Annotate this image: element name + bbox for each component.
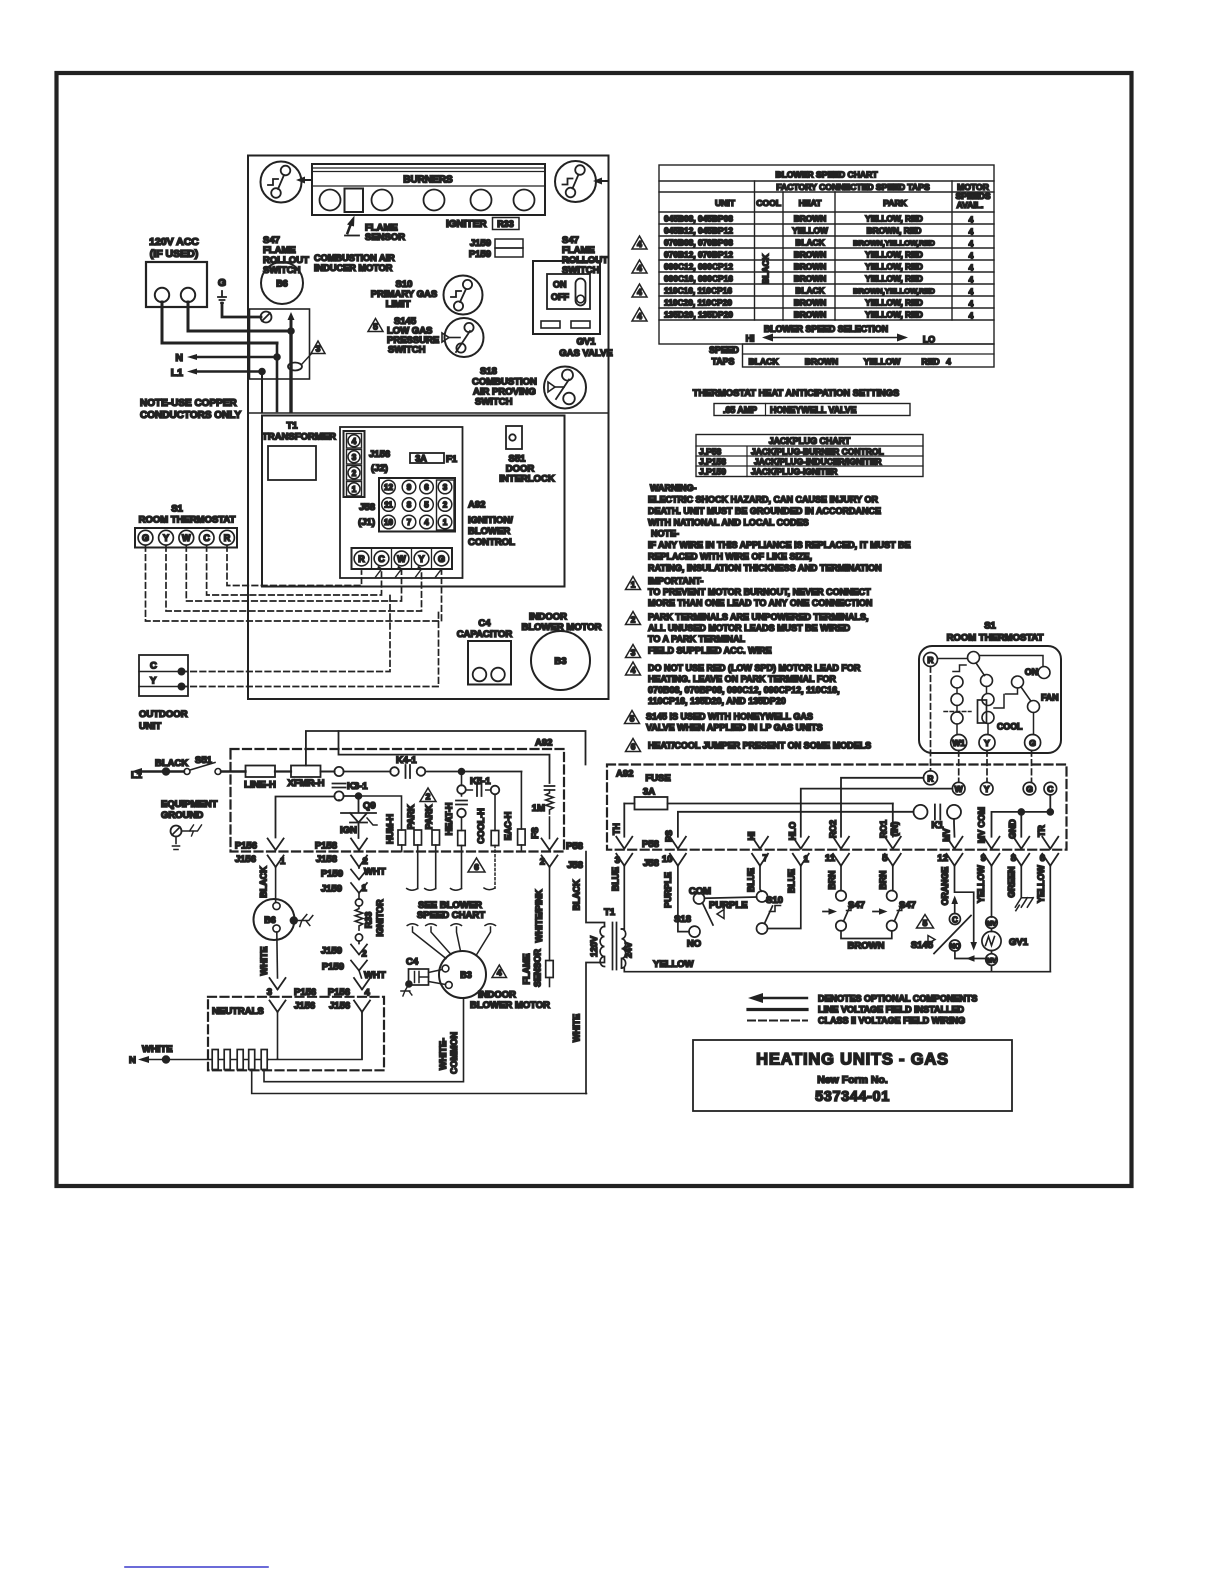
flame rollout switch S47 left — [261, 162, 312, 277]
svg-text:B6: B6 — [276, 279, 288, 289]
connector J58 (J1) pin block — [358, 478, 455, 532]
svg-text:4: 4 — [497, 968, 502, 978]
svg-text:BURNERS: BURNERS — [403, 175, 453, 186]
wire HI to S10 — [760, 866, 762, 892]
compartment divider — [248, 412, 609, 414]
svg-text:120V: 120V — [589, 936, 599, 957]
svg-text:JACKPLUG CHART: JACKPLUG CHART — [769, 436, 851, 446]
svg-text:(J2): (J2) — [371, 463, 388, 474]
svg-text:R: R — [358, 554, 365, 564]
svg-text:S18: S18 — [480, 366, 497, 377]
svg-text:W: W — [397, 554, 406, 564]
svg-text:YELLOW, RED: YELLOW, RED — [865, 262, 923, 272]
svg-text:COOL-H: COOL-H — [476, 808, 486, 844]
control fuse 3A — [624, 773, 893, 810]
svg-text:WHT: WHT — [364, 970, 386, 981]
svg-text:IMPORTANT-: IMPORTANT- — [648, 576, 703, 586]
svg-text:SPEED CHART: SPEED CHART — [417, 910, 485, 921]
svg-text:4: 4 — [631, 665, 636, 675]
svg-text:SWITCH: SWITCH — [388, 345, 426, 356]
connector P156/J156 pin 4 — [328, 978, 371, 1059]
svg-text:C: C — [203, 533, 210, 543]
legend class II — [748, 1016, 965, 1026]
svg-text:K4-1: K4-1 — [396, 755, 417, 766]
ignition control board outline — [340, 427, 463, 578]
svg-text:DENOTES OPTIONAL COMPONENTS: DENOTES OPTIONAL COMPONENTS — [818, 994, 977, 1004]
door interlock S51 — [499, 426, 555, 485]
svg-text:4: 4 — [969, 251, 974, 261]
svg-text:DEATH. UNIT MUST BE GROUNDED I: DEATH. UNIT MUST BE GROUNDED IN ACCORDAN… — [648, 506, 881, 516]
wire TR yellow — [1049, 866, 1051, 972]
terminal W1 — [951, 735, 967, 751]
svg-text:S47: S47 — [899, 900, 916, 911]
svg-text:MORE THAN ONE LEAD TO ANY ONE: MORE THAN ONE LEAD TO ANY ONE CONNECTION — [648, 598, 872, 608]
connector P159/J159 pin 1 — [321, 867, 386, 895]
control compartment box — [262, 416, 565, 587]
svg-text:4: 4 — [969, 275, 974, 285]
svg-text:BROWN: BROWN — [794, 262, 827, 272]
wire K1 to MV — [953, 819, 956, 837]
svg-text:C4: C4 — [478, 618, 491, 629]
svg-text:TR: TR — [1037, 824, 1047, 836]
connector J156 (J2) — [344, 431, 391, 497]
svg-text:SENSOR: SENSOR — [533, 948, 543, 987]
capacitor C4 — [457, 618, 513, 685]
svg-text:RO1: RO1 — [879, 820, 889, 838]
svg-text:BLACK: BLACK — [259, 866, 269, 898]
svg-text:1: 1 — [804, 854, 810, 865]
connector J159 P159 — [469, 238, 523, 260]
note triangle 5 — [368, 319, 383, 332]
flame sensor dropping resistor 1M — [530, 786, 555, 839]
svg-text:J158: J158 — [316, 854, 337, 865]
ignition blower control A92 label — [468, 500, 515, 549]
svg-text:L1: L1 — [171, 367, 183, 379]
svg-text:WHITE: WHITE — [259, 947, 269, 976]
svg-text:3: 3 — [443, 483, 448, 492]
svg-text:HEAT-H: HEAT-H — [444, 803, 454, 836]
svg-text:3A: 3A — [415, 454, 427, 464]
wire RO1 — [892, 804, 894, 837]
terminal strip R C W Y G — [352, 548, 453, 569]
svg-text:P159: P159 — [469, 249, 491, 260]
svg-text:N: N — [175, 352, 183, 364]
svg-text:INDOOR: INDOOR — [529, 612, 567, 623]
heat switch — [938, 652, 993, 687]
rollout switch S47 a — [823, 891, 865, 931]
terminal TR pin 6 — [1042, 837, 1058, 866]
pressure switch S18 — [674, 886, 747, 950]
wire W thermostat to strip — [186, 546, 401, 602]
svg-text:5: 5 — [923, 918, 928, 928]
legend optional arrow — [748, 993, 977, 1004]
svg-text:UNIT: UNIT — [139, 721, 161, 732]
svg-text:FIELD SUPPLIED ACC. WIRE: FIELD SUPPLIED ACC. WIRE — [648, 646, 772, 656]
svg-text:4: 4 — [637, 239, 642, 249]
svg-text:R33: R33 — [364, 912, 374, 929]
burner assembly — [312, 164, 545, 215]
wire GND to chassis — [1020, 866, 1022, 898]
svg-text:C: C — [1047, 784, 1053, 794]
svg-text:WITH NATIONAL AND LOCAL CODES: WITH NATIONAL AND LOCAL CODES — [648, 518, 809, 528]
note triangle 2 — [420, 788, 436, 802]
wire outdoor C — [182, 595, 391, 672]
svg-text:7: 7 — [407, 518, 412, 527]
svg-text:C: C — [952, 915, 958, 924]
svg-text:.65 AMP: .65 AMP — [723, 405, 757, 415]
svg-text:4: 4 — [969, 227, 974, 237]
svg-text:BROWN: BROWN — [794, 298, 827, 308]
wire G to screw — [222, 303, 261, 317]
svg-text:GAS VALVE: GAS VALVE — [559, 348, 613, 359]
mercury bulb — [978, 687, 1005, 735]
wire W to HLO — [801, 789, 953, 837]
svg-text:B3: B3 — [460, 970, 472, 980]
svg-text:2: 2 — [426, 792, 431, 802]
svg-text:S145: S145 — [911, 940, 934, 951]
svg-text:XFMR-H: XFMR-H — [288, 778, 325, 789]
inducer motor B6 — [261, 262, 303, 304]
wire MV orange with optional arrows — [951, 866, 986, 962]
svg-text:045B08, 045BP08: 045B08, 045BP08 — [664, 214, 733, 224]
connector J159/P159 pin 2 — [321, 941, 386, 981]
park lead 1 — [406, 804, 422, 888]
svg-text:6: 6 — [474, 862, 479, 872]
svg-text:P158: P158 — [315, 841, 337, 852]
combustion air proving switch S18 label — [472, 366, 537, 408]
accessory EAC-H — [503, 772, 525, 852]
note 5 — [625, 711, 823, 733]
svg-text:5: 5 — [373, 322, 378, 332]
connector P156/J156 pin 3 — [267, 978, 316, 1059]
svg-text:TO A PARK TERMINAL: TO A PARK TERMINAL — [648, 634, 745, 644]
svg-text:LIMIT: LIMIT — [386, 299, 411, 310]
wire 120V neutral — [162, 302, 277, 343]
riser to FS branch — [339, 731, 550, 783]
svg-text:11: 11 — [825, 853, 836, 864]
relay coil K1 — [914, 805, 962, 832]
svg-text:090C16, 090CP16: 090C16, 090CP16 — [664, 274, 733, 284]
low gas pressure switch S145 label — [387, 316, 439, 356]
relay contact K4-1 — [390, 755, 461, 778]
brown link wire — [841, 931, 892, 939]
svg-text:BROWN: BROWN — [848, 941, 885, 952]
jackplug chart — [696, 435, 923, 477]
node L1 — [171, 367, 265, 379]
svg-text:F1: F1 — [446, 454, 458, 465]
thermostat heat anticipation settings — [693, 388, 910, 416]
svg-text:J.P58: J.P58 — [699, 447, 721, 457]
furnace unit outline — [248, 156, 609, 700]
svg-text:3: 3 — [631, 648, 636, 658]
svg-text:YELLOW: YELLOW — [1036, 864, 1046, 902]
gas pressure switch S145 — [911, 914, 971, 954]
svg-text:BROWN: BROWN — [794, 214, 827, 224]
svg-text:S10: S10 — [766, 895, 783, 906]
terminal TH pin 3 — [616, 837, 632, 866]
svg-text:INDOOR: INDOOR — [478, 990, 516, 1001]
park lead 2 — [424, 804, 440, 888]
svg-text:G: G — [1029, 738, 1036, 748]
svg-text:NEUTRALS: NEUTRALS — [212, 1006, 264, 1017]
svg-text:4: 4 — [969, 263, 974, 273]
svg-text:1: 1 — [362, 883, 368, 894]
svg-text:Y: Y — [984, 784, 990, 794]
wire outdoor Y — [182, 611, 439, 687]
svg-text:BROWN,YELLOW,RED: BROWN,YELLOW,RED — [853, 239, 935, 248]
svg-text:VALVE WHEN APPLIED IN LP GAS U: VALVE WHEN APPLIED IN LP GAS UNITS — [646, 723, 823, 733]
svg-text:COOL: COOL — [997, 722, 1023, 732]
wire S10 to HLO — [768, 866, 801, 929]
svg-text:J58: J58 — [359, 502, 375, 513]
svg-text:4: 4 — [969, 239, 974, 249]
accessory HUM-H — [385, 814, 406, 852]
blower motor B3 — [439, 951, 550, 1011]
svg-text:070B08, 070BP08: 070B08, 070BP08 — [664, 238, 733, 248]
svg-text:INTERLOCK: INTERLOCK — [499, 474, 555, 485]
svg-text:R33: R33 — [497, 219, 514, 229]
svg-text:INDUCER MOTOR: INDUCER MOTOR — [314, 263, 393, 273]
svg-text:12: 12 — [937, 853, 948, 864]
svg-text:BLUE: BLUE — [746, 868, 756, 892]
svg-text:8: 8 — [407, 501, 412, 510]
svg-text:P159: P159 — [322, 962, 344, 973]
svg-text:MV: MV — [942, 828, 952, 841]
limit switch S10 — [757, 891, 783, 934]
svg-text:GV1: GV1 — [1009, 937, 1029, 948]
svg-text:4: 4 — [969, 311, 974, 321]
svg-text:WARNING-: WARNING- — [650, 483, 697, 493]
svg-text:4: 4 — [637, 263, 642, 273]
svg-text:PARK: PARK — [406, 804, 416, 829]
triac Q9 — [339, 793, 377, 838]
svg-text:2: 2 — [362, 949, 367, 960]
svg-text:BROWN: BROWN — [794, 274, 827, 284]
svg-text:WHITE: WHITE — [572, 1014, 582, 1042]
svg-text:6: 6 — [424, 483, 429, 492]
svg-text:DO NOT USE RED (LOW SPD) MOTOR: DO NOT USE RED (LOW SPD) MOTOR LEAD FOR — [648, 663, 861, 673]
svg-text:Y: Y — [150, 676, 157, 687]
wire L1 down — [261, 372, 263, 412]
svg-text:IGNITOR: IGNITOR — [375, 899, 385, 937]
wire C thermostat to strip — [207, 546, 382, 596]
blower speed chart table — [659, 165, 994, 344]
node G ground — [218, 277, 226, 303]
svg-text:PURPLE: PURPLE — [709, 900, 748, 911]
svg-text:EQUIPMENT: EQUIPMENT — [161, 799, 218, 810]
svg-text:G: G — [218, 277, 226, 289]
svg-text:BLACK: BLACK — [795, 286, 824, 296]
equipment ground — [161, 799, 218, 850]
relay K5-1 — [456, 775, 499, 831]
svg-text:2: 2 — [443, 501, 448, 510]
dashed wire thermostat G — [1031, 751, 1033, 783]
svg-text:COOL: COOL — [756, 198, 781, 208]
terminal R — [924, 653, 938, 667]
svg-text:NOTE-USE COPPER: NOTE-USE COPPER — [140, 398, 237, 409]
terminal PS pin 10 — [670, 837, 686, 866]
svg-text:TAPS: TAPS — [712, 357, 735, 367]
wire RO2 down — [840, 866, 842, 891]
svg-text:3: 3 — [352, 453, 357, 462]
svg-text:BROWN,YELLOW,RED: BROWN,YELLOW,RED — [853, 287, 935, 296]
room thermostat S1 terminal strip — [135, 504, 237, 548]
limit switch S10 — [444, 276, 483, 315]
svg-text:5: 5 — [882, 853, 888, 864]
terminal GND pin 8 — [1013, 837, 1029, 866]
connector P158/J158 pin 2 — [315, 839, 368, 868]
svg-text:ON: ON — [553, 280, 567, 290]
svg-text:NO: NO — [687, 939, 701, 950]
svg-text:2: 2 — [631, 615, 636, 625]
svg-text:J159: J159 — [321, 946, 342, 957]
svg-text:BLACK: BLACK — [761, 253, 771, 284]
flame sensor callout — [345, 216, 405, 244]
dashed wire thermostat Y — [986, 751, 988, 783]
svg-text:R: R — [224, 533, 231, 543]
svg-text:FS: FS — [530, 827, 540, 839]
svg-text:CONTROL: CONTROL — [468, 537, 515, 548]
svg-text:HI: HI — [746, 334, 755, 344]
svg-text:TH: TH — [612, 823, 622, 835]
svg-text:ALL UNUSED MOTOR LEADS MUST BE: ALL UNUSED MOTOR LEADS MUST BE WIRED — [648, 623, 851, 633]
terminal R — [924, 771, 938, 785]
wire color labels rotated — [572, 864, 1047, 1042]
riser from XFMR-H to T1 — [306, 731, 586, 766]
svg-text:090C12, 090CP12: 090C12, 090CP12 — [664, 262, 733, 272]
note copper conductors — [140, 398, 241, 421]
svg-text:YELLOW: YELLOW — [653, 959, 694, 970]
svg-text:(IN): (IN) — [890, 822, 900, 837]
wire R to RO2 — [841, 778, 924, 837]
svg-text:UNIT: UNIT — [715, 198, 736, 208]
wire MV COM to GV1 — [991, 866, 993, 917]
svg-text:BLUE: BLUE — [611, 867, 621, 891]
speed taps row — [709, 344, 994, 367]
junction — [459, 769, 465, 775]
svg-text:10: 10 — [662, 854, 673, 865]
wire Y thermostat to strip — [166, 546, 422, 612]
burner 5 — [514, 190, 535, 211]
neutral out to T1 white — [252, 1070, 587, 1094]
svg-text:S1: S1 — [984, 621, 996, 632]
svg-text:8: 8 — [1011, 853, 1016, 864]
svg-text:BLACK: BLACK — [748, 357, 779, 367]
svg-text:ORANGE: ORANGE — [940, 867, 950, 906]
svg-text:J58: J58 — [567, 860, 583, 871]
svg-text:12: 12 — [384, 483, 393, 492]
svg-text:A92: A92 — [468, 500, 485, 511]
svg-text:BLOWER SPEED CHART: BLOWER SPEED CHART — [775, 170, 878, 180]
svg-text:P58: P58 — [642, 839, 659, 850]
svg-text:CLASS II VOLTAGE FIELD WIRING: CLASS II VOLTAGE FIELD WIRING — [818, 1016, 965, 1026]
svg-text:YELLOW: YELLOW — [976, 864, 986, 902]
svg-text:R: R — [927, 655, 933, 665]
A92 dashed box line voltage — [231, 749, 565, 852]
pin numbers — [615, 839, 1045, 869]
note triangle 3 — [302, 341, 325, 364]
svg-text:P159: P159 — [321, 869, 343, 880]
svg-text:045B12, 045BP12: 045B12, 045BP12 — [664, 226, 733, 236]
svg-text:S1: S1 — [171, 504, 183, 515]
terminal G — [1023, 782, 1036, 795]
dashed wire thermostat W1 — [958, 751, 960, 783]
svg-text:J156: J156 — [329, 1001, 350, 1012]
igniter R33 label — [446, 218, 519, 231]
burner 2 — [372, 190, 393, 211]
svg-text:120V ACC: 120V ACC — [149, 236, 199, 248]
svg-text:P156: P156 — [235, 841, 257, 852]
svg-text:YELLOW, RED: YELLOW, RED — [865, 250, 923, 260]
wire TH to T1 — [622, 866, 625, 929]
wire 120V hot to unit — [188, 302, 291, 331]
neutrals box — [208, 997, 384, 1071]
svg-text:J156: J156 — [369, 449, 390, 460]
svg-text:J156: J156 — [294, 1001, 315, 1012]
svg-text:ROOM THERMOSTAT: ROOM THERMOSTAT — [139, 515, 236, 526]
svg-text:5: 5 — [424, 501, 429, 510]
svg-text:R: R — [927, 773, 933, 783]
svg-text:9: 9 — [981, 853, 986, 864]
svg-text:11: 11 — [384, 501, 393, 510]
svg-text:2: 2 — [363, 856, 368, 867]
svg-text:YELLOW: YELLOW — [864, 357, 902, 367]
svg-text:REPLACED WITH WIRE OF LIKE SIZ: REPLACED WITH WIRE OF LIKE SIZE, — [648, 552, 812, 562]
heater lead HEAT-H — [444, 803, 465, 889]
wire G thermostat to strip — [146, 546, 442, 622]
terminal RO1 pin 5 — [885, 837, 901, 866]
svg-text:3: 3 — [615, 855, 620, 866]
svg-text:BLACK: BLACK — [155, 758, 188, 769]
neutral splice bar — [212, 1050, 267, 1070]
svg-text:G: G — [142, 533, 149, 543]
svg-text:COMBUSTION AIR: COMBUSTION AIR — [314, 253, 395, 263]
connector P58/J58 pin 2 — [540, 839, 583, 872]
transformer T1 — [262, 421, 336, 481]
wire to fan section — [980, 656, 1044, 667]
svg-text:WHITE/PINK: WHITE/PINK — [534, 889, 544, 942]
relay contact LINE-H — [244, 766, 291, 791]
svg-text:HEATING. LEAVE ON PARK TERMIN: HEATING. LEAVE ON PARK TERMINAL FOR — [648, 674, 836, 684]
svg-text:LINE-H: LINE-H — [244, 780, 276, 791]
lead WHITE from B6 — [259, 932, 278, 978]
burner 1 — [320, 190, 341, 211]
note triangle 4 — [492, 965, 507, 978]
pressure switch S145 — [442, 318, 484, 357]
svg-text:AVAIL.: AVAIL. — [957, 200, 984, 210]
burner 3 — [424, 190, 445, 211]
svg-text:BRN: BRN — [878, 870, 888, 889]
svg-text:2: 2 — [540, 857, 545, 868]
svg-text:MV: MV — [987, 957, 997, 964]
svg-text:N: N — [129, 1055, 136, 1066]
svg-text:BROWN, RED: BROWN, RED — [867, 226, 922, 236]
terminal Y — [979, 735, 995, 751]
svg-text:BLOWER MOTOR: BLOWER MOTOR — [470, 1000, 550, 1011]
svg-text:P58: P58 — [566, 841, 583, 852]
svg-text:3: 3 — [316, 344, 321, 354]
wire PS to S18 NO — [678, 866, 689, 932]
ground screw — [261, 312, 272, 323]
svg-text:HEAT: HEAT — [799, 198, 823, 208]
svg-text:NO: NO — [950, 943, 961, 950]
svg-text:BROWN: BROWN — [805, 357, 838, 367]
svg-text:OUTDOOR: OUTDOOR — [139, 709, 188, 720]
svg-text:J159: J159 — [321, 884, 342, 895]
svg-text:LO: LO — [923, 335, 935, 345]
svg-text:GV1: GV1 — [576, 337, 596, 348]
svg-text:FACTORY CONNECTED SPEED TAPS: FACTORY CONNECTED SPEED TAPS — [776, 182, 930, 192]
